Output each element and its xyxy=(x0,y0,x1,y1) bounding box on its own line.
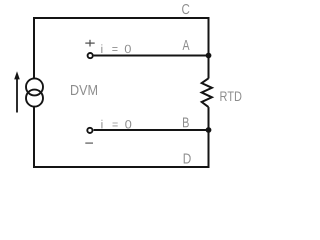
node label A xyxy=(183,40,190,50)
wire: left side upper (corner to current source) xyxy=(33,17,35,78)
- polarity mark xyxy=(85,142,93,144)
wire: left side lower (current source to corner) xyxy=(33,107,35,168)
node label D xyxy=(184,154,191,164)
junction node B xyxy=(206,127,212,133)
node label B xyxy=(183,118,189,128)
wire: resistor bottom lead to node B xyxy=(208,107,210,130)
wire: DVM - lead to node B xyxy=(94,129,209,131)
value label RTD xyxy=(220,91,241,101)
current direction arrow (upward) xyxy=(14,71,20,112)
wire: DVM + lead to node A xyxy=(94,55,209,57)
node label C xyxy=(182,4,189,14)
resistor RTD zigzag xyxy=(202,78,212,107)
wire: node B to bottom corner xyxy=(208,130,210,168)
terminal: DVM + input (open circle) xyxy=(88,53,93,58)
label DVM xyxy=(71,85,97,95)
label i = 0 (lower lead) xyxy=(101,120,131,129)
terminal: DVM - input (open circle) xyxy=(87,128,92,133)
current source I (two overlapping circles) xyxy=(26,78,43,106)
+ polarity mark xyxy=(85,40,94,47)
wire: right side upper (corner to node A) xyxy=(208,17,210,56)
label i = 0 (upper lead) xyxy=(101,44,131,53)
wire: top side run C xyxy=(33,17,210,19)
wire: bottom side run D xyxy=(33,166,210,168)
junction node A xyxy=(206,53,212,59)
wire: node A to resistor top lead xyxy=(208,56,210,79)
